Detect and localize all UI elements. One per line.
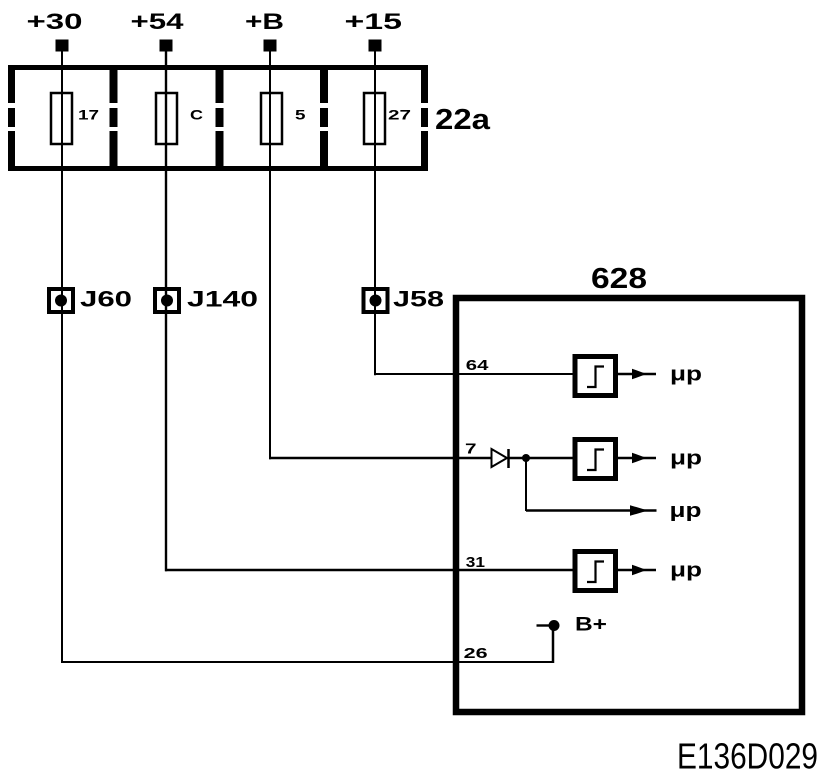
- svg-text:J140: J140: [187, 287, 258, 312]
- terminal +30: [56, 40, 69, 52]
- fuse 5: [261, 93, 282, 144]
- fusebox 22a bottom edge: [8, 166, 428, 171]
- wire pin 64 horizontal: [374, 373, 573, 375]
- svg-text:μp: μp: [670, 500, 702, 522]
- wire +54 vertical: [165, 51, 167, 571]
- fusebox 22a left edge (dashed): [8, 65, 15, 171]
- diode D1: [492, 449, 509, 468]
- arrow to microprocessor row 3: [630, 505, 657, 516]
- fusebox 22a right edge (dashed): [421, 65, 428, 171]
- terminal +15: [369, 40, 382, 52]
- svg-text:7: 7: [465, 442, 477, 458]
- node B+ stub: [537, 624, 550, 626]
- svg-text:31: 31: [466, 555, 485, 571]
- svg-text:26: 26: [464, 646, 488, 662]
- terminal +B: [264, 40, 277, 52]
- fusebox divider 3 (dashed): [320, 65, 328, 171]
- svg-text:E136D029: E136D029: [677, 736, 818, 777]
- fusebox divider 2 (dashed): [216, 65, 224, 171]
- svg-text:5: 5: [295, 107, 306, 123]
- svg-text:μp: μp: [670, 560, 702, 582]
- svg-text:μp: μp: [670, 364, 702, 386]
- wire junction down to row 3: [525, 458, 527, 511]
- junction node row 2: [522, 454, 530, 462]
- fusebox divider 1 (dashed): [110, 65, 118, 171]
- schmitt trigger U2: [575, 440, 616, 479]
- wire pin 26 horizontal: [61, 661, 554, 663]
- wire row 3 horizontal: [526, 509, 631, 511]
- svg-text:64: 64: [466, 358, 489, 374]
- wire pin 7 horizontal: [269, 457, 492, 459]
- wire +15 vertical: [374, 51, 376, 375]
- svg-text:17: 17: [78, 107, 99, 123]
- fusebox 22a top edge: [8, 65, 428, 70]
- schmitt trigger U1: [575, 357, 616, 396]
- fuse C: [156, 93, 177, 144]
- svg-text:+B: +B: [245, 9, 284, 34]
- node B+ junction dot: [549, 620, 560, 631]
- svg-text:J60: J60: [80, 287, 132, 312]
- connector J58: [364, 289, 388, 312]
- svg-text:22a: 22a: [435, 104, 491, 136]
- arrow to microprocessor row 1: [618, 369, 656, 380]
- svg-text:628: 628: [591, 263, 647, 295]
- connector J60: [49, 289, 73, 312]
- fuse 27: [364, 93, 385, 144]
- arrow to microprocessor row 4: [618, 565, 656, 576]
- arrow to microprocessor row 2: [618, 453, 656, 464]
- svg-text:J58: J58: [393, 287, 444, 312]
- svg-text:+54: +54: [131, 9, 185, 34]
- svg-text:+30: +30: [27, 9, 83, 34]
- svg-text:μp: μp: [670, 448, 702, 470]
- wire +30 vertical: [61, 51, 63, 663]
- schmitt trigger U3: [575, 552, 616, 591]
- svg-text:B+: B+: [575, 615, 607, 636]
- wire diode to schmitt trigger U2: [509, 457, 573, 459]
- connector J140: [155, 289, 179, 312]
- ECU box 628: [456, 298, 802, 712]
- fuse 17: [51, 93, 72, 144]
- svg-text:27: 27: [388, 107, 411, 123]
- svg-text:+15: +15: [345, 9, 403, 34]
- wire +B vertical: [269, 51, 271, 459]
- terminal +54: [160, 40, 173, 52]
- svg-text:C: C: [190, 107, 203, 123]
- wire B+ down to pin 26: [552, 626, 555, 664]
- wire pin 31 horizontal: [165, 569, 573, 572]
